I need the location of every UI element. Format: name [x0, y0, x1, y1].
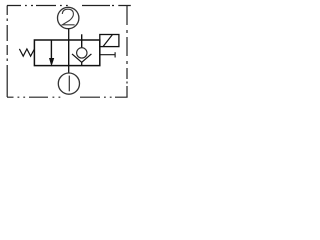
envelope bottom border (dash-dot) [7, 96, 128, 98]
solenoid diagonal [103, 35, 112, 47]
check seat [72, 54, 91, 62]
wire check branch above valve [81, 34, 83, 48]
solenoid box [100, 35, 119, 47]
check ball (right position) [77, 48, 87, 58]
manual override bar [114, 52, 116, 57]
valve position divider [68, 40, 70, 66]
valve body [34, 40, 99, 66]
manual override stem [100, 54, 115, 56]
envelope right border (dash-dot) [126, 5, 128, 97]
check seat stem [81, 62, 83, 65]
port 2 label "2" [62, 9, 74, 25]
envelope top border (dash-dot) [7, 5, 131, 7]
wire port2 to valve top [68, 29, 70, 40]
port 2 circle [57, 7, 78, 28]
port 1 circle [58, 73, 79, 94]
envelope left border (dash-dot) [6, 6, 8, 98]
wire valve bottom to port 1 [68, 66, 70, 73]
spring [19, 49, 34, 56]
flow arrow line (left position) [50, 40, 52, 60]
port 1 label "1" [68, 76, 70, 92]
flow arrowhead [49, 58, 53, 65]
